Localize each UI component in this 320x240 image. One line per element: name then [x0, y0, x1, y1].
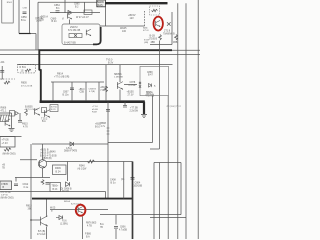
svg-text:4.7u/5B: 4.7u/5B [119, 229, 127, 231]
svg-text:(1/2): (1/2) [97, 4, 102, 7]
transistor Q850 [85, 30, 87, 36]
wire [31, 33, 36, 35]
svg-text:B.A: B.A [42, 120, 46, 123]
svg-text:7.0B: 7.0B [100, 90, 105, 92]
resistor [25, 110, 28, 116]
heavy bus jog [39, 69, 41, 71]
wire [85, 82, 87, 101]
svg-text:B 3u: B 3u [111, 182, 117, 185]
photocoupler box [150, 6, 160, 15]
svg-text:671 281 0B: 671 281 0B [68, 29, 81, 32]
svg-text:B05 A: B05 A [64, 200, 70, 203]
svg-text:R640: R640 [50, 152, 56, 154]
wire [119, 90, 121, 102]
svg-text:C878: C878 [130, 81, 136, 84]
wire [20, 159, 37, 161]
component in box [69, 34, 82, 38]
wire [42, 168, 44, 178]
long wire [177, 3, 179, 239]
svg-text:39K: 39K [28, 208, 33, 211]
dashed connector edge [144, 11, 146, 26]
heavy rail [32, 198, 133, 200]
svg-text:+7.4V: +7.4V [2, 142, 9, 145]
capacitor C806 [114, 226, 118, 228]
wire [38, 1, 105, 3]
wire [158, 41, 160, 150]
svg-text:C806: C806 [120, 227, 126, 229]
regulator C7805 box [0, 181, 12, 190]
svg-text:TB50+: TB50+ [52, 186, 59, 188]
long wire [197, 0, 199, 239]
transistor Q607 [4, 119, 6, 125]
svg-text:(4) 1/2W: (4) 1/2W [78, 168, 88, 170]
svg-text:+B(S) B: +B(S) B [40, 149, 49, 152]
wire [84, 2, 86, 12]
svg-text:B.8505: B.8505 [25, 105, 33, 108]
connector ticks [107, 127, 110, 129]
svg-text:4.7(B): 4.7(B) [89, 91, 95, 93]
transistor Q806 [43, 110, 45, 117]
svg-text:QB05 (B): QB05 (B) [42, 158, 52, 160]
wire [124, 84, 137, 86]
diode D807 [66, 182, 70, 186]
svg-text:+T7.0B: +T7.0B [130, 107, 138, 110]
zener D605 [59, 216, 63, 220]
svg-text:4.7u: 4.7u [101, 126, 106, 128]
diode [16, 112, 19, 116]
box R609 [53, 165, 67, 175]
svg-text:471.1: 471.1 [1, 110, 7, 112]
svg-text:B(1)A: B(1)A [146, 90, 152, 93]
wire [115, 215, 117, 225]
svg-text:27.3V: 27.3V [128, 95, 134, 97]
heavy bus wire vertical lower [40, 69, 42, 103]
svg-text:R.AT: R.AT [92, 111, 97, 114]
wire [46, 227, 48, 240]
svg-text:B 24: B 24 [52, 20, 58, 23]
svg-text:+T1.0: +T1.0 [92, 106, 98, 108]
svg-text:C7805: C7805 [1, 184, 8, 186]
svg-text:///: /// [62, 17, 64, 20]
svg-text:R501: R501 [7, 2, 13, 4]
wire rail left [0, 49, 39, 51]
resistor R540 [88, 160, 95, 163]
diode D851 [68, 11, 71, 14]
transistor Q604 [39, 217, 41, 226]
svg-text:+T7.0 (AB OR): +T7.0 (AB OR) [54, 76, 69, 79]
small box [42, 108, 47, 113]
svg-text:471.122 0B: 471.122 0B [21, 85, 33, 87]
svg-text:B 10u: B 10u [63, 94, 70, 96]
svg-text:4BB: 4BB [151, 42, 156, 44]
block 2SD72 regulator box [62, 24, 100, 45]
wire [150, 217, 186, 219]
svg-text:7B: 7B [2, 168, 5, 170]
capacitor [18, 120, 22, 122]
capacitor [46, 182, 50, 184]
transistor Q602 [77, 207, 79, 212]
svg-text:(C): (C) [121, 178, 125, 181]
svg-text:B-1B: B-1B [150, 35, 156, 38]
svg-text:+B0A: +B0A [100, 86, 106, 89]
wire [107, 102, 109, 199]
svg-text:(MAIN GND): (MAIN GND) [3, 153, 16, 156]
wire [158, 163, 160, 240]
svg-text:(1.3BV): (1.3BV) [60, 223, 68, 225]
svg-text:1uF 50: 1uF 50 [1, 195, 9, 197]
wire [154, 162, 181, 164]
wire [67, 162, 69, 182]
block left edge [30, 144, 32, 239]
svg-text:(MAIN GND): (MAIN GND) [1, 196, 14, 199]
svg-text:R806: R806 [1, 107, 7, 110]
svg-text:1.085/8B: 1.085/8B [114, 77, 123, 79]
svg-text:17035 B: 17035 B [149, 38, 158, 40]
svg-text:B 23: B 23 [51, 109, 56, 111]
svg-text:4BB: 4BB [173, 42, 178, 44]
wire [115, 229, 117, 239]
svg-text:B.A: B.A [86, 235, 90, 238]
box below rail [50, 105, 58, 112]
ground [141, 114, 147, 116]
wire [180, 163, 182, 215]
transistor Q803 [116, 82, 118, 89]
wire [46, 199, 48, 217]
transistor Q805 [34, 108, 36, 115]
svg-text:D808 FTATB: D808 FTATB [64, 150, 78, 153]
svg-text:0.47uF: 0.47uF [129, 85, 137, 87]
wire [71, 82, 73, 101]
wire [123, 162, 125, 199]
capacitor [14, 183, 18, 185]
svg-text:1S: 1S [21, 69, 24, 72]
wire [15, 178, 17, 182]
wire [19, 33, 31, 35]
svg-text:C865: C865 [74, 4, 80, 6]
heavy top bus wire [105, 2, 168, 4]
heavy wire vertical [143, 102, 145, 114]
heavy bus wire [40, 100, 145, 103]
svg-text:R814: R814 [57, 73, 64, 76]
circled fault annotation 2 [76, 205, 86, 216]
svg-text:471.0uF: 471.0uF [37, 234, 46, 236]
wire [105, 192, 107, 199]
wire [1, 66, 3, 79]
wire [0, 112, 12, 114]
svg-text:C5B: C5B [80, 91, 85, 93]
block box [0, 137, 15, 148]
wire [31, 219, 40, 221]
svg-text:R540: R540 [79, 165, 85, 168]
svg-text:R805: R805 [21, 82, 27, 85]
svg-text:+B15S: +B15S [127, 91, 135, 94]
svg-text:471.8: 471.8 [143, 30, 149, 32]
resistor R803 [175, 35, 178, 41]
capacitor C807 [70, 87, 74, 89]
svg-text:2.2k/1W: 2.2k/1W [130, 111, 139, 113]
svg-text:SB05 A: SB05 A [114, 73, 122, 76]
wire [50, 209, 108, 211]
box TB50 [50, 183, 61, 192]
svg-text:B888: B888 [101, 123, 107, 125]
svg-text:A01: A01 [1, 61, 6, 64]
heavy box corner [93, 27, 101, 44]
polarized cap [131, 177, 135, 179]
circled fault annotation [154, 17, 163, 31]
resistor R806 [4, 81, 10, 84]
box top-left connector [2, 0, 13, 23]
svg-text:W.05: W.05 [50, 208, 56, 210]
svg-text:B 23: B 23 [53, 189, 58, 191]
svg-text:471/7uB: 471/7uB [146, 94, 155, 96]
svg-text:W 27.2A C7: W 27.2A C7 [76, 16, 89, 19]
ground [9, 128, 15, 130]
block right box [140, 66, 169, 95]
svg-text:B 24: B 24 [56, 171, 62, 174]
component box [10, 111, 15, 117]
svg-text:B 1u: B 1u [21, 19, 27, 22]
svg-text:C807: C807 [63, 92, 69, 94]
svg-text:0.5W: 0.5W [36, 20, 42, 23]
svg-text:T.25.2: T.25.2 [41, 119, 48, 121]
block R501 box [18, 64, 36, 73]
svg-text:B 4A57 BB: B 4A57 BB [64, 42, 76, 45]
transistor Q605 with circle [38, 160, 46, 168]
plus marks [139, 82, 141, 84]
diode D808 [70, 142, 74, 146]
dashed wire [0, 78, 15, 80]
capacitor [106, 109, 110, 111]
heavy bus wire [39, 49, 173, 51]
wire [0, 136, 22, 138]
resistor R802 [159, 35, 162, 41]
svg-text:+5.6: +5.6 [62, 221, 67, 223]
svg-text:(4B): (4B) [144, 42, 148, 44]
svg-text:7B: 7B [100, 227, 103, 229]
wire [82, 217, 84, 240]
resistor R822 [105, 86, 108, 92]
wire rail [15, 177, 50, 179]
wire [50, 12, 100, 14]
wire [69, 20, 71, 25]
diode in box [149, 84, 152, 88]
transistor Q851 [67, 13, 69, 18]
svg-text:100: 100 [122, 30, 127, 33]
resistor [41, 180, 44, 185]
wire [124, 102, 126, 106]
wire [51, 81, 104, 83]
wire rail GND [0, 191, 106, 193]
svg-text:B.5 (B): B.5 (B) [38, 231, 45, 233]
component box [84, 10, 92, 14]
wire rail [46, 161, 133, 163]
wire [64, 0, 66, 13]
wire [152, 96, 154, 143]
svg-text:A 5i A: A 5i A [66, 147, 72, 150]
wire rail [0, 54, 200, 56]
wire [153, 163, 155, 240]
svg-text:R876 B05: R876 B05 [86, 223, 97, 225]
wire [42, 144, 44, 160]
resistor [4, 148, 11, 151]
svg-text:+B: +B [2, 164, 5, 167]
wire rail [17, 64, 173, 66]
svg-text:////: //// [1, 79, 4, 81]
wire [98, 82, 100, 101]
wire [18, 0, 20, 34]
long wire [185, 3, 187, 239]
wire [119, 65, 121, 82]
wire [105, 65, 107, 101]
heavy bus wire vertical [38, 50, 40, 70]
svg-text:2T1.8: 2T1.8 [164, 30, 171, 33]
svg-text:12V: 12V [130, 17, 135, 20]
svg-text:100/16B: 100/16B [134, 186, 143, 188]
x marker [167, 22, 171, 26]
svg-text:471.22 0B: 471.22 0B [1, 192, 12, 194]
capacitor [0, 70, 4, 72]
wire [37, 2, 39, 50]
svg-text:70A80V6 B: 70A80V6 B [163, 32, 175, 35]
svg-text:C808 B: C808 B [89, 89, 97, 91]
wire [19, 113, 21, 120]
svg-text:4.7K: 4.7K [23, 125, 28, 128]
svg-text:B.T50: B.T50 [51, 107, 58, 109]
svg-text:C804: C804 [135, 182, 141, 185]
capacitor C850 [23, 11, 27, 13]
svg-text:P.B06: P.B06 [85, 234, 92, 236]
svg-text:4.7B: 4.7B [87, 225, 92, 227]
wire [105, 7, 107, 26]
svg-text:B 3V: B 3V [108, 61, 114, 64]
wire [108, 142, 153, 144]
svg-text:B.A: B.A [100, 223, 104, 226]
svg-text:0.1u: 0.1u [24, 186, 29, 189]
svg-text:d5.0B: d5.0B [92, 109, 98, 111]
wire [29, 0, 31, 34]
capacitor C864 [56, 10, 60, 12]
wire [100, 25, 145, 27]
svg-text:C5B: C5B [23, 8, 28, 10]
hatched connector box [0, 115, 9, 122]
transistor Q801 [155, 21, 157, 26]
medium wire [132, 162, 134, 240]
svg-text:-05 (can) W-4: -05 (can) W-4 [166, 105, 181, 108]
svg-text:(D) C808 B: (D) C808 B [60, 188, 72, 190]
wire [35, 34, 37, 51]
svg-text:B 47: B 47 [148, 75, 153, 77]
wire rail [172, 49, 200, 51]
wire [11, 113, 13, 128]
wire [52, 82, 54, 101]
block outline [171, 12, 173, 45]
wire [32, 143, 108, 145]
wire [167, 96, 169, 239]
wire [150, 148, 159, 150]
wire [100, 214, 181, 216]
svg-text:C868: C868 [147, 72, 153, 74]
dark text block MAIN [97, 0, 106, 7]
